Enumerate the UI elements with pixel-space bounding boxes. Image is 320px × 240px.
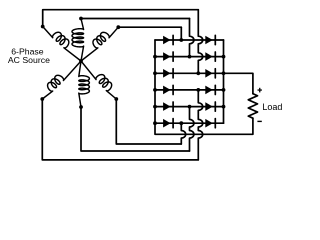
svg-text:AC Source: AC Source bbox=[8, 55, 50, 65]
svg-text:Load: Load bbox=[262, 102, 282, 112]
